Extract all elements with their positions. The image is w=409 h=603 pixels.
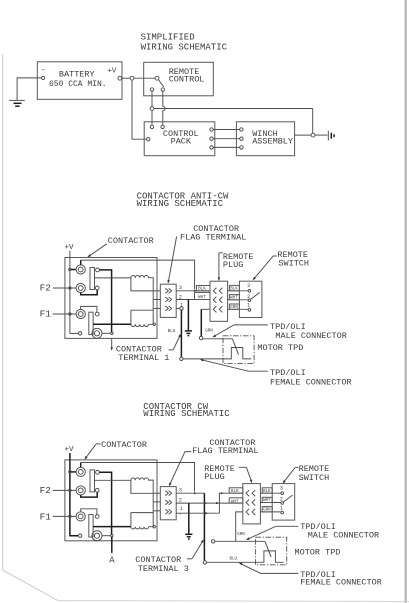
flag contact 3 xyxy=(165,288,172,293)
svg-text:CONTACTOR: CONTACTOR xyxy=(108,236,154,246)
svg-text:GRN: GRN xyxy=(205,329,213,333)
wire female node to TPD xyxy=(207,561,259,563)
TPD/OLI female terminal circle xyxy=(180,357,183,360)
wire contact bar to coil L2 xyxy=(95,277,131,279)
page edge line left xyxy=(3,54,57,600)
wire A lead below box xyxy=(111,537,113,553)
junction bead 2 xyxy=(69,489,71,491)
switch arm xyxy=(251,292,260,299)
lower contact circle xyxy=(95,312,99,316)
junction arrow 2b xyxy=(216,502,219,504)
contactor box xyxy=(65,258,157,339)
flag 1 terminal circle xyxy=(180,307,183,310)
wire control pack to winch 1 xyxy=(213,129,239,131)
wire plug to switch 3 xyxy=(260,492,280,494)
svg-text:F1: F1 xyxy=(40,511,52,522)
node +V xyxy=(130,76,134,80)
page edge line right xyxy=(405,0,407,603)
wire F2 to contact xyxy=(81,492,98,497)
wire upper contact to A junction xyxy=(99,472,111,534)
coil terminal circle xyxy=(153,323,155,325)
junction arrow 1 xyxy=(205,512,208,514)
wire F1 lead xyxy=(53,313,77,315)
upper contact circle top xyxy=(96,470,100,474)
upper contact circle bottom xyxy=(95,488,99,492)
junction bead 1 xyxy=(69,268,71,270)
wire flag 2 right to plug WHT xyxy=(176,502,243,504)
remote switch box xyxy=(272,484,295,520)
contact bar upper xyxy=(90,268,95,290)
junction arrow 2a xyxy=(204,502,207,504)
flag contact 1 xyxy=(165,509,172,514)
winch input terminals xyxy=(240,128,243,131)
wire male connector into TPD xyxy=(264,540,266,542)
wire male connector into TPD xyxy=(232,338,234,340)
wire stud A to junction xyxy=(102,332,110,334)
svg-text:WHT: WHT xyxy=(263,499,271,503)
contactor flag terminal block xyxy=(160,487,176,520)
wire label WHT (left) xyxy=(195,292,211,299)
node A1 xyxy=(150,107,154,111)
svg-text:F2: F2 xyxy=(40,283,52,294)
wire F1 lead xyxy=(53,515,77,517)
svg-text:2: 2 xyxy=(247,294,250,300)
wire bead to stud 1 xyxy=(71,471,76,473)
junction bead 2 xyxy=(69,287,71,289)
junction circle right of stud A xyxy=(111,332,113,334)
wire node to remote control switch xyxy=(134,77,155,79)
terminal stud F2 xyxy=(76,486,85,495)
plug contact pair 3 xyxy=(213,306,216,312)
switch terminal 3 xyxy=(248,290,251,293)
control pack left terminal xyxy=(147,138,150,141)
motor TPD box (dash-dot) xyxy=(256,537,287,565)
wire plug to switch 1 xyxy=(260,511,280,513)
svg-text:FLAG TERMINAL: FLAG TERMINAL xyxy=(180,232,246,242)
svg-text:MALE CONNECTOR: MALE CONNECTOR xyxy=(275,331,346,341)
chassis ground (winch) xyxy=(327,131,329,141)
svg-text:FEMALE CONNECTOR: FEMALE CONNECTOR xyxy=(270,377,352,387)
wire plug GRN down to male node xyxy=(201,308,210,310)
coil output rail xyxy=(152,493,154,512)
switch terminal 1 xyxy=(248,309,251,312)
coil output rail xyxy=(152,291,154,310)
plug contact pair 3 xyxy=(246,509,249,515)
junction bead 3 xyxy=(69,313,71,315)
svg-text:+V: +V xyxy=(107,68,117,76)
svg-text:PACK: PACK xyxy=(171,137,192,147)
ground (flag 2) xyxy=(185,533,192,535)
battery negative terminal xyxy=(42,76,45,79)
switch terminal 2 xyxy=(281,502,284,505)
wire flag 1 stub xyxy=(176,307,180,309)
upper contact circle bottom xyxy=(95,286,99,290)
svg-text:GRN: GRN xyxy=(237,533,245,537)
svg-text:F1: F1 xyxy=(40,309,52,320)
wire down to ground node xyxy=(312,109,314,134)
wire coil to flag 2 xyxy=(153,501,160,503)
switch S1 contacts xyxy=(150,88,153,91)
svg-text:SWITCH: SWITCH xyxy=(278,258,309,268)
coil L1 xyxy=(131,513,153,529)
wire contact bar to coil L1 xyxy=(93,526,131,528)
svg-text:3: 3 xyxy=(247,283,250,289)
wire plug to switch 2 xyxy=(260,502,280,504)
flag contact 1 xyxy=(165,306,172,311)
switch arm xyxy=(284,495,293,502)
TPD actuator diagonal xyxy=(233,339,239,354)
svg-text:+V: +V xyxy=(65,244,75,252)
ground (flag 2) xyxy=(185,330,192,332)
wire flag 1 up to plug BLK xyxy=(219,493,242,513)
svg-text:PLUG: PLUG xyxy=(223,260,243,270)
svg-text:SWITCH: SWITCH xyxy=(299,473,330,483)
svg-text:2: 2 xyxy=(280,497,283,503)
ground (battery) xyxy=(9,99,25,101)
terminal stud 1 (+V) xyxy=(76,467,85,476)
battery +V terminal xyxy=(118,76,122,80)
wire flag 2 to ground xyxy=(188,503,190,534)
svg-text:MOTOR TPD: MOTOR TPD xyxy=(295,547,341,557)
wire coil to flag 1 xyxy=(153,290,160,292)
wire F2 to contact xyxy=(81,290,98,295)
wire flag 2 to plug WHT xyxy=(176,299,210,301)
contactor flag terminal block xyxy=(160,284,176,317)
upper contact circle top xyxy=(96,268,100,272)
svg-text:F2: F2 xyxy=(40,485,52,496)
svg-text:BLK: BLK xyxy=(231,490,239,494)
contact bar upper xyxy=(90,470,95,492)
contactor box xyxy=(65,460,157,541)
wire upper contact to A junction xyxy=(99,270,111,332)
svg-text:BLK: BLK xyxy=(230,288,238,292)
TPD/OLI female (BLU) node circle xyxy=(203,561,206,564)
TPD/OLI male node circle xyxy=(199,336,202,339)
wire contactor terminal 1 (BLU) down xyxy=(180,310,182,357)
wire coil to flag 1 xyxy=(153,492,160,494)
control pack output terminals xyxy=(210,128,213,131)
svg-text:3: 3 xyxy=(179,488,182,494)
battery BT1 box xyxy=(37,62,122,100)
junction bead 3 xyxy=(69,515,71,517)
wire node A1 to winch ground rail xyxy=(154,108,313,110)
svg-text:1: 1 xyxy=(247,303,250,309)
wire label GRN (right) xyxy=(229,304,239,309)
bottom left terminal xyxy=(78,332,81,335)
contact bar lower xyxy=(89,515,93,537)
remote switch box xyxy=(239,281,262,317)
wire contact bar to coil L2 xyxy=(95,479,131,481)
wire winch to ground node xyxy=(295,134,312,136)
svg-text:GRN: GRN xyxy=(263,509,271,513)
wire coil to flag 3 xyxy=(153,307,160,309)
wire plug to switch 3 xyxy=(228,290,248,292)
svg-text:BLU: BLU xyxy=(168,330,176,334)
wire label WHT (right) xyxy=(262,497,272,502)
wire control pack to winch 2 xyxy=(213,138,239,140)
wire F2 lead xyxy=(53,287,77,289)
wire F1 to contact xyxy=(81,306,97,312)
flag contact 3 xyxy=(165,491,172,496)
coil L2 xyxy=(131,478,153,493)
wire flag 1 right xyxy=(176,512,219,514)
ground node xyxy=(311,133,315,137)
junction circle right of stud A xyxy=(111,535,113,537)
TPD actuator diagonal xyxy=(265,542,271,557)
TPD pulse element xyxy=(226,348,251,359)
control pack box xyxy=(144,122,215,156)
wire battery node to control pack xyxy=(132,80,147,139)
svg-text:.: . xyxy=(179,511,182,517)
+V lead xyxy=(70,453,78,536)
terminal stud F1 xyxy=(76,309,85,318)
wire label WHT (right) xyxy=(229,295,239,300)
svg-text:650 CCA MIN.: 650 CCA MIN. xyxy=(49,80,107,89)
switch terminal 2 xyxy=(248,299,251,302)
contact bar lower xyxy=(89,312,93,334)
svg-text:+V: +V xyxy=(65,446,75,454)
wire female connector to TPD xyxy=(183,358,226,360)
remote plug box xyxy=(243,484,261,524)
wire plug GRN down to male wire xyxy=(236,512,243,541)
svg-text:WIRING SCHEMATIC: WIRING SCHEMATIC xyxy=(141,43,228,53)
svg-text:ASSEMBLY: ASSEMBLY xyxy=(252,137,293,147)
svg-text:WHT: WHT xyxy=(231,501,239,505)
svg-text:TERMINAL 3: TERMINAL 3 xyxy=(138,564,189,574)
terminal stud F2 xyxy=(76,283,85,292)
motor TPD box (dash-dot) xyxy=(223,336,254,364)
switch terminal 3 xyxy=(281,492,284,495)
wire F1 to contact xyxy=(81,509,97,515)
terminal stud F1 xyxy=(76,512,85,521)
junction arrow 1b xyxy=(221,492,224,494)
wire control pack to winch 3 xyxy=(213,146,239,148)
svg-text:FLAG TERMINAL: FLAG TERMINAL xyxy=(192,446,258,456)
junction arrow xyxy=(194,290,197,292)
junction bead 1 xyxy=(69,471,71,473)
TPD/OLI male node circle xyxy=(211,540,214,543)
svg-text:3: 3 xyxy=(179,285,182,291)
wire label BLK (right) xyxy=(229,285,239,290)
control pack input terminals xyxy=(150,125,153,128)
switch S1 arm xyxy=(158,80,163,87)
coil L2 xyxy=(131,276,153,291)
wire stud A to junction xyxy=(102,535,110,537)
svg-text:BLK: BLK xyxy=(263,490,271,494)
svg-text:BLK: BLK xyxy=(198,288,206,292)
svg-text:TERMINAL 1: TERMINAL 1 xyxy=(118,353,169,363)
svg-text:WIRING SCHEMATIC: WIRING SCHEMATIC xyxy=(137,199,224,209)
svg-text:BLU: BLU xyxy=(230,557,238,561)
bottom left terminal xyxy=(78,534,81,537)
wire node to chassis ground xyxy=(315,134,328,136)
plug contact pair 1 xyxy=(246,490,249,496)
svg-text:MOTOR TPD: MOTOR TPD xyxy=(257,343,303,353)
wire contactor terminal 3 (BLU) down xyxy=(203,493,205,560)
plug contact pair 2 xyxy=(213,297,216,303)
wire label BLK (right) xyxy=(262,488,272,493)
svg-text:CONTROL: CONTROL xyxy=(169,74,205,84)
wire from contactor top xyxy=(80,463,82,468)
wire S1 left contact down xyxy=(151,91,153,106)
wire plug to switch 2 xyxy=(228,299,248,301)
svg-text:-: - xyxy=(41,65,46,75)
wire from contactor top to BLK junction xyxy=(80,260,82,265)
flag contact 2 xyxy=(165,297,172,302)
svg-text:1: 1 xyxy=(280,505,283,511)
svg-text:3: 3 xyxy=(280,485,283,491)
svg-text:WHT: WHT xyxy=(198,296,206,300)
coil terminal circle xyxy=(153,526,155,528)
wire label BLK (left) xyxy=(229,488,243,493)
svg-text:BATTERY: BATTERY xyxy=(59,70,95,80)
terminal stud A (bottom right) xyxy=(92,328,102,338)
svg-text:WIRING SCHEMATIC: WIRING SCHEMATIC xyxy=(143,409,230,419)
wire coil to flag 2 xyxy=(153,299,160,301)
flag contact 2 xyxy=(165,500,172,505)
plug contact pair 2 xyxy=(246,499,249,505)
remote control box xyxy=(144,62,214,96)
svg-text:2: 2 xyxy=(179,497,182,503)
winch assembly box xyxy=(236,122,294,156)
wire label BLK (left) xyxy=(196,286,210,291)
plug contact pair 1 xyxy=(213,288,216,294)
svg-text:SIMPLIFIED: SIMPLIFIED xyxy=(141,33,195,43)
terminal stud A (bottom right) xyxy=(92,531,102,541)
svg-text:PLUG: PLUG xyxy=(204,472,224,482)
wire node A1 to control pack xyxy=(151,110,153,125)
wire male node to TPD xyxy=(203,338,233,340)
switch terminal 1 xyxy=(281,511,284,514)
wire bead to stud 1 xyxy=(71,269,76,271)
wire flag 3 right xyxy=(176,492,204,494)
svg-text:A: A xyxy=(109,555,115,565)
wire male node to TPD xyxy=(215,540,265,542)
+V lead xyxy=(70,251,78,334)
remote plug box xyxy=(210,281,228,321)
wire contact bar to coil L1 xyxy=(93,323,131,325)
junction arrow xyxy=(194,492,197,494)
wire battery to ground xyxy=(17,78,41,100)
wire label WHT (left) xyxy=(229,498,243,503)
coil L1 xyxy=(131,310,153,326)
TPD pulse element xyxy=(259,551,284,562)
wire coil to flag 3 xyxy=(153,510,160,512)
svg-text:FEMALE CONNECTOR: FEMALE CONNECTOR xyxy=(300,578,382,588)
terminal stud 1 (+V) xyxy=(76,265,85,274)
switch S1 pivot xyxy=(155,76,159,80)
svg-text:MALE CONNECTOR: MALE CONNECTOR xyxy=(308,530,379,540)
wire F2 lead xyxy=(53,489,77,491)
svg-text:WHT: WHT xyxy=(230,297,238,301)
svg-text:GRN: GRN xyxy=(230,306,238,310)
wire +V to node xyxy=(122,77,130,79)
wire flag 2 to ground xyxy=(187,300,189,331)
wire label GRN (right) xyxy=(262,507,272,512)
svg-text:CONTACTOR: CONTACTOR xyxy=(101,440,147,450)
wire plug to switch 1 xyxy=(228,308,248,310)
wire flag 3 to plug BLK xyxy=(176,290,210,292)
page edge line bottom xyxy=(57,601,409,602)
wire S1 right contact down with hop xyxy=(163,91,165,125)
lower contact circle xyxy=(95,515,99,519)
